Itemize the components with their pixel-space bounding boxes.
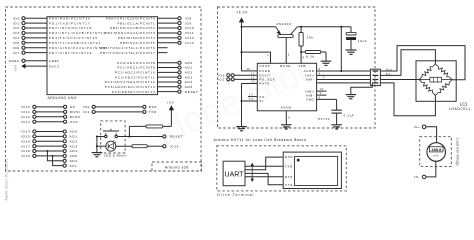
svg-text:PB3/MOSI/OC2A/PCINT3: PB3/MOSI/OC2A/PCINT3 <box>105 31 156 35</box>
svg-text:IO2: IO2 <box>13 26 20 30</box>
svg-text:5: 5 <box>288 115 290 119</box>
wire +5V rail to transistor emitter + junction <box>240 26 275 28</box>
svg-text:IO4: IO4 <box>13 36 20 40</box>
svg-text:Drive Terminal: Drive Terminal <box>217 193 254 197</box>
terminal PC body box <box>283 152 341 188</box>
stub wire XO pin 13 <box>248 93 257 97</box>
svg-text:8.2k: 8.2k <box>306 54 315 58</box>
HX711 right pin labels <box>304 69 315 101</box>
svg-text:PB6/TOSC1/XTAL1/PCINT6: PB6/TOSC1/XTAL1/PCINT6 <box>100 46 155 50</box>
svg-text:IO0: IO0 <box>83 105 90 109</box>
svg-text:LOADCELL.: LOADCELL. <box>449 107 473 111</box>
connector J1 pin ticks <box>372 71 378 83</box>
svg-text:PB7/TOSC2/XTAL2/PCINT7: PB7/TOSC2/XTAL2/PCINT7 <box>100 51 155 55</box>
svg-text:RXD: RXD <box>285 155 294 159</box>
svg-text:PD7/AIN1/PCINT23: PD7/AIN1/PCINT23 <box>49 51 92 55</box>
wire junction up to pullup resistor <box>129 126 146 136</box>
HX711 top pin labels <box>259 64 306 68</box>
wire UART CTS to terminal CTS <box>245 173 283 184</box>
net alias wire IO1 - TXD <box>83 110 157 114</box>
capacitor C2 0.1uF <box>331 110 354 124</box>
svg-text:PD2/INT0/PCINT18: PD2/INT0/PCINT18 <box>49 26 92 30</box>
wire INA- pin 7 to connector J1 <box>317 76 371 80</box>
svg-text:PD5/T1/OC0B/PCINT21: PD5/T1/OC0B/PCINT21 <box>49 41 101 45</box>
net alias wire IO11 - MOSI <box>21 110 81 114</box>
svg-text:IO19: IO19 <box>21 154 31 158</box>
wire J1 to loadcell E+ (top route) <box>380 46 465 80</box>
svg-text:AGND: AGND <box>281 105 293 109</box>
wire resistor R2 to IO13 terminal <box>147 144 179 148</box>
svg-text:AD2: AD2 <box>70 139 78 143</box>
svg-text:IO8: IO8 <box>185 16 192 20</box>
wire + terminal IO5 to pin PD5 <box>13 41 102 45</box>
terminal PC screen <box>295 156 338 185</box>
svg-text:15: 15 <box>251 80 255 84</box>
connector J1 <box>370 69 380 85</box>
ground below AGND <box>281 124 292 126</box>
svg-text:PB2/SS/OC1B/PCINT2: PB2/SS/OC1B/PCINT2 <box>110 26 155 30</box>
svg-text:IO14: IO14 <box>21 130 31 134</box>
wire + terminal IO6 to pin PD6 <box>13 46 107 50</box>
svg-text:IO10: IO10 <box>185 26 195 30</box>
wire resistor R1 to +5V <box>163 110 172 126</box>
svg-text:IO16: IO16 <box>21 139 31 143</box>
wire + terminal IO2 to pin PD2 <box>13 26 92 30</box>
svg-text:SCK: SCK <box>70 120 79 124</box>
svg-text:PD4/T0/XCK/PCINT20: PD4/T0/XCK/PCINT20 <box>49 36 98 40</box>
power +5.0V <box>236 11 248 27</box>
svg-text:IO11: IO11 <box>185 31 194 35</box>
svg-text:AD3: AD3 <box>185 75 193 79</box>
terminal IN- <box>414 175 426 179</box>
UART module U3 body <box>223 161 245 186</box>
svg-text:ARDUINO UNO: ARDUINO UNO <box>48 96 78 100</box>
svg-text:6: 6 <box>319 96 321 100</box>
terminal RESET (button net) <box>163 135 184 139</box>
wire VSUP pin 1 from +5V rail + junction <box>240 51 270 63</box>
wire transistor base to HX711 BASE pin 2 <box>286 38 290 64</box>
svg-text:188.8: 188.8 <box>431 147 442 152</box>
loadcell strain gauge element <box>419 77 452 82</box>
terminal IN+ <box>414 125 426 129</box>
wire + terminal AD5 from pin PC5 <box>105 85 193 89</box>
HX711 left pin labels <box>259 69 275 103</box>
svg-text:XI: XI <box>259 99 263 103</box>
svg-text:IO5: IO5 <box>13 41 20 45</box>
ground below C1 <box>345 49 356 51</box>
wire + terminal IO9 from pin PB1 <box>117 21 192 25</box>
svg-text:AD5: AD5 <box>70 154 78 158</box>
svg-text:IO3: IO3 <box>13 31 20 35</box>
wire E- row to connector J1 <box>317 82 371 84</box>
wire UART TXD to terminal TXD <box>245 165 283 167</box>
wire INA+ pin 8 to connector J1 <box>317 72 371 76</box>
svg-text:AD0: AD0 <box>185 61 193 65</box>
ground below 8.2k <box>321 60 332 62</box>
svg-text:IO1: IO1 <box>83 110 90 114</box>
terminal SDA <box>63 159 78 163</box>
svg-text:PC0/ADC0/PCINT8: PC0/ADC0/PCINT8 <box>117 61 155 65</box>
svg-text:PC5/ADC5/SCL/PCINT13: PC5/ADC5/SCL/PCINT13 <box>105 85 156 89</box>
svg-text:16: 16 <box>246 67 250 71</box>
svg-text:IO18: IO18 <box>21 149 31 153</box>
wire + terminal IO3 to pin PD3 <box>13 31 107 35</box>
LED D1 <box>106 140 117 151</box>
wire J1 to loadcell bottom vertex (bottom route) <box>380 83 435 116</box>
wire VBG pin 6 to C2 <box>317 96 337 111</box>
svg-text:AD4: AD4 <box>185 80 193 84</box>
wire + terminal IO2 to PD_SCK pin 11 <box>218 76 257 82</box>
svg-text:0.1uF: 0.1uF <box>344 114 355 118</box>
svg-text:1: 1 <box>267 53 269 57</box>
svg-text:IO11: IO11 <box>21 110 30 114</box>
svg-text:Load Cell Voltage: Load Cell Voltage <box>455 138 459 166</box>
svg-text:11: 11 <box>251 76 255 80</box>
svg-text:PB4/MISO/PCINT4: PB4/MISO/PCINT4 <box>118 36 156 40</box>
ground on E- wire <box>346 94 357 96</box>
wire colour label Blk <box>386 74 391 76</box>
wire + terminal AD4 from pin PC4 <box>105 80 193 84</box>
svg-text:AD4: AD4 <box>70 149 78 153</box>
svg-text:MOSI: MOSI <box>70 110 81 114</box>
svg-text:PC6/RESET/PCINT14: PC6/RESET/PCINT14 <box>112 90 155 94</box>
wire J1 to loadcell top vertex <box>380 50 435 76</box>
wire XI pin 14 to ground rail + junction <box>240 97 257 102</box>
terminal PC screen cursor <box>297 159 300 162</box>
terminal SCL <box>63 164 78 168</box>
svg-text:SS: SS <box>70 105 76 109</box>
svg-text:HX711: HX711 <box>318 117 331 121</box>
svg-text:PB0/ICP1/CLKO/PCINT0: PB0/ICP1/CLKO/PCINT0 <box>106 16 156 20</box>
svg-text:AD1: AD1 <box>70 135 78 139</box>
svg-text:PD3/INT1/OC2B/PCINT19: PD3/INT1/OC2B/PCINT19 <box>49 31 106 35</box>
svg-text:10uF: 10uF <box>358 39 367 43</box>
wire UART RTS to terminal RTS <box>245 176 283 178</box>
svg-text:2: 2 <box>288 53 290 57</box>
wire + terminal IO11 from pin PB3 <box>105 31 194 35</box>
svg-text:IN+: IN+ <box>414 125 421 129</box>
svg-text:7: 7 <box>323 76 325 80</box>
svg-text:PC2/ADC2/PCINT10: PC2/ADC2/PCINT10 <box>115 70 156 74</box>
wire + terminal AD0 from pin PC0 <box>117 61 193 65</box>
pushbutton S1 <box>103 129 119 138</box>
svg-text:BASE: BASE <box>280 64 291 68</box>
wire + terminal IO10 from pin PB2 <box>110 26 194 30</box>
svg-text:SCL: SCL <box>70 164 78 168</box>
op-amp U2 HX711 IC body <box>257 63 316 111</box>
wire DVDD pin 16 from +5V rail <box>242 27 258 71</box>
svg-text:PD6/AIN0/OC0A/PCINT22: PD6/AIN0/OC0A/PCINT22 <box>49 46 107 50</box>
svg-text:AD5: AD5 <box>185 85 193 89</box>
net alias wire IO0 - RXD <box>83 105 157 109</box>
wire LED to resistor R2 <box>116 145 132 147</box>
stub wire INB- pin 9 <box>317 91 327 95</box>
net alias wire IO19 - AD5 <box>21 154 78 158</box>
svg-text:mV: mV <box>433 154 439 158</box>
svg-text:PC1/ADC1/PCINT9: PC1/ADC1/PCINT9 <box>117 66 155 70</box>
resistor R3 20k <box>299 27 314 53</box>
stub wire INB+ pin 10 <box>317 87 327 91</box>
svg-text:12: 12 <box>251 71 255 75</box>
net alias wire IO17 - AD3 <box>21 144 78 148</box>
terminal PC pin labels <box>285 155 294 187</box>
svg-text:3: 3 <box>319 67 321 71</box>
svg-text:RTS: RTS <box>285 175 293 179</box>
svg-text:AREF: AREF <box>49 59 60 63</box>
svg-text:RXD: RXD <box>149 105 158 109</box>
resistor R1 reset pullup <box>146 125 163 128</box>
wire ground rail of LED & Reset + junctions <box>96 135 106 152</box>
wire pushbutton to RESET node + junction <box>117 135 162 137</box>
resistor R4 8.2k <box>301 51 326 62</box>
svg-text:IO13: IO13 <box>21 120 31 124</box>
wire + terminal IO0 to pin PD0 <box>13 16 91 20</box>
svg-text:RATE: RATE <box>259 82 270 86</box>
bidirectional data flow arrow <box>251 163 254 182</box>
loadcell LC1 body box <box>416 61 456 102</box>
power +5V (reset pullup) <box>167 101 174 111</box>
svg-text:Adobe Stock | #515292591: Adobe Stock | #515292591 <box>4 158 8 200</box>
svg-text:IO12: IO12 <box>21 115 31 119</box>
ground below LED & Reset <box>92 152 103 154</box>
svg-text:IO10: IO10 <box>21 105 31 109</box>
svg-text:IO0: IO0 <box>13 16 20 20</box>
transistor Q1 2N4403 <box>276 22 298 37</box>
stub wire pin PB6 <box>100 46 167 50</box>
svg-text:Arduino 328: Arduino 328 <box>165 166 189 170</box>
svg-text:VSUP: VSUP <box>259 64 270 68</box>
op-amp U1 Arduino UNO IC body <box>47 17 158 95</box>
svg-text:PB5/SCK/PCINT5: PB5/SCK/PCINT5 <box>120 41 155 45</box>
svg-text:IO12: IO12 <box>185 36 195 40</box>
net alias wire IO16 - AD2 <box>21 139 78 143</box>
section box LED & Reset <box>101 121 125 153</box>
svg-text:20k: 20k <box>307 36 314 40</box>
loadcell bridge resistor bottom-left <box>419 80 435 96</box>
svg-text:IN-: IN- <box>414 175 420 179</box>
svg-text:IO17: IO17 <box>21 144 31 148</box>
net alias wire IO15 - AD1 <box>21 135 78 139</box>
svg-text:9: 9 <box>320 91 322 95</box>
svg-text:IO2: IO2 <box>218 78 225 82</box>
svg-text:AD0: AD0 <box>70 130 78 134</box>
loadcell bridge resistor top-left <box>419 64 435 80</box>
svg-text:AD2: AD2 <box>185 70 193 74</box>
power +5V arrow into AVCC <box>13 64 60 72</box>
wire + terminal IO12 from pin PB4 <box>118 36 195 40</box>
wire VFB pin 4 stub <box>301 52 305 63</box>
loadcell bridge resistor bottom-right <box>435 80 452 96</box>
wire E- to ground tap <box>351 83 373 95</box>
svg-text:Arduino HX711 for Load Cell Br: Arduino HX711 for Load Cell Breakout Boa… <box>214 138 307 142</box>
stub wire pin PB7 <box>100 51 167 55</box>
wire IO19 branch to SCL + junction <box>52 155 64 166</box>
svg-text:TXD: TXD <box>285 164 293 168</box>
svg-text:PC4/ADC4/SDA/PCINT12: PC4/ADC4/SDA/PCINT12 <box>105 80 156 84</box>
wire + terminal IO4 to pin PD4 <box>13 36 99 40</box>
svg-text:+5V: +5V <box>13 64 17 71</box>
svg-text:IO15: IO15 <box>21 135 31 139</box>
wire + terminal IO7 to pin PD7 <box>13 51 93 55</box>
svg-text:AD3: AD3 <box>70 144 78 148</box>
svg-text:UART: UART <box>225 171 245 178</box>
wire + terminal IO8 from pin PB0 <box>106 16 192 20</box>
svg-text:IO7: IO7 <box>13 51 20 55</box>
svg-text:IO13: IO13 <box>185 41 195 45</box>
svg-text:+5.0V: +5.0V <box>236 11 248 15</box>
section box Arduino 328 <box>6 7 202 171</box>
wire + terminal AREF <box>9 59 60 63</box>
wire AVDD pin 3 to connector J1 + +5V drop junction <box>317 26 371 72</box>
svg-text:AD1: AD1 <box>185 66 193 70</box>
net alias wire IO14 - AD0 <box>21 130 78 134</box>
svg-text:INA-: INA- <box>306 78 315 82</box>
resistor R2 LED series <box>132 145 147 148</box>
wire RATE pin 15 to ground rail <box>242 80 258 127</box>
section box HX711 breakout <box>218 7 376 128</box>
wire + terminal IO13 from pin PB5 <box>120 41 194 45</box>
meter M1 voltmeter <box>427 143 446 162</box>
capacitor C1 10uF <box>341 27 367 50</box>
svg-text:AREF: AREF <box>9 59 20 63</box>
svg-text:2N4403: 2N4403 <box>276 22 291 26</box>
section label box Arduino 328 <box>152 162 202 171</box>
svg-text:PD1/TXD/PCINT17: PD1/TXD/PCINT17 <box>49 21 91 25</box>
wire UART RXD to terminal RXD <box>245 157 283 170</box>
svg-text:IO6: IO6 <box>13 46 20 50</box>
svg-text:CTS: CTS <box>285 183 293 187</box>
ground below C2 <box>331 124 342 126</box>
wire collector to 20k + junction <box>297 26 341 28</box>
svg-text:VBG: VBG <box>306 98 314 102</box>
svg-text:IO1: IO1 <box>13 21 20 25</box>
svg-text:TXD: TXD <box>149 110 157 114</box>
svg-text:13: 13 <box>249 93 253 97</box>
svg-text:AVCC: AVCC <box>49 64 60 68</box>
svg-text:RESET: RESET <box>185 90 199 94</box>
svg-text:RESET: RESET <box>170 135 184 139</box>
svg-text:LED & Reset: LED & Reset <box>104 154 127 158</box>
svg-text:VFB: VFB <box>298 64 306 68</box>
wire AGND pin 5 to ground <box>286 111 290 125</box>
svg-text:+5V: +5V <box>167 101 174 105</box>
svg-text:IO9: IO9 <box>185 21 192 25</box>
wire + terminal AD2 from pin PC2 <box>115 70 193 74</box>
net alias wire IO13 - SCK <box>21 120 79 124</box>
section box Drive Terminal <box>217 146 346 191</box>
section box meter <box>420 137 452 167</box>
svg-text:PC3/ADC3/PCINT11: PC3/ADC3/PCINT11 <box>115 75 155 79</box>
wire colour label Red <box>386 69 392 71</box>
net alias wire IO10 - SS <box>21 105 76 109</box>
svg-text:PD0/RXD/PCINT16: PD0/RXD/PCINT16 <box>49 16 91 20</box>
svg-text:SDA: SDA <box>70 159 79 163</box>
svg-text:14: 14 <box>249 97 253 101</box>
net alias wire IO12 - MISO <box>21 115 81 119</box>
wire + terminal IO3 to DOUT pin 12 <box>218 71 257 77</box>
loadcell bridge resistor top-right <box>435 64 452 80</box>
wire + terminal RESET from pin PC6 <box>112 90 199 94</box>
wire J1 to loadcell left vertex <box>380 79 419 81</box>
svg-text:PB1/OC1A/PCINT1: PB1/OC1A/PCINT1 <box>117 21 155 25</box>
wire meter to IN- <box>426 161 436 177</box>
ground below RATE/XI rail <box>236 126 247 128</box>
svg-text:LC1: LC1 <box>460 101 468 106</box>
svg-text:8: 8 <box>319 72 321 76</box>
svg-text:4: 4 <box>303 56 305 60</box>
wire + terminal IO1 to pin PD1 <box>13 21 91 25</box>
wire IN+ to meter <box>426 127 437 143</box>
wire IO18 branch to SDA + junction <box>46 150 63 161</box>
svg-text:10: 10 <box>320 87 324 91</box>
net alias wire IO18 - AD4 <box>21 149 78 153</box>
svg-text:IO13: IO13 <box>170 144 180 148</box>
svg-text:MISO: MISO <box>70 115 81 119</box>
wire + terminal AD1 from pin PC1 <box>117 66 193 70</box>
wire + terminal AD3 from pin PC3 <box>115 75 193 79</box>
